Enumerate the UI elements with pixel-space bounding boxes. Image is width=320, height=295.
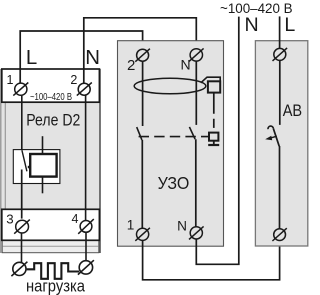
L supply wire to AB [279, 16, 281, 48]
svg-text:1: 1 [6, 73, 13, 87]
trip dashed link vertical [213, 105, 215, 133]
svg-text:УЗО: УЗО [158, 173, 190, 193]
wire relay terminal 2 to UZO terminal N (N) [84, 18, 197, 84]
svg-text:Реле D2: Реле D2 [26, 111, 80, 130]
relay contact wire from terminal 1 [21, 96, 23, 151]
svg-text:N: N [177, 218, 187, 233]
UZO left contact blade [137, 127, 142, 140]
svg-text:нагрузка: нагрузка [26, 277, 86, 295]
UZO terminal N top [189, 48, 204, 61]
wire relay terminal 1 to UZO terminal 2 (L) [20, 31, 142, 83]
load terminal right [78, 260, 94, 274]
coil stub top [42, 136, 44, 154]
terminal 3 [14, 220, 30, 234]
svg-text:L: L [26, 47, 37, 69]
load resistor meander [27, 263, 80, 279]
coil stub bottom [42, 177, 44, 194]
toroid to trip relay link [201, 77, 220, 83]
svg-text:~100–420 В: ~100–420 В [30, 92, 72, 103]
relay module D2 body [0, 69, 100, 253]
armature nub [28, 166, 30, 169]
AB wire lower [279, 146, 281, 229]
AB breaker blade [273, 129, 279, 147]
svg-text:3: 3 [6, 211, 13, 226]
terminal 2 [77, 83, 92, 96]
relay coil [30, 154, 56, 177]
svg-text:N: N [180, 56, 190, 72]
svg-text:N: N [85, 47, 100, 69]
UZO internal wire right upper [195, 61, 197, 125]
trip stem [213, 93, 215, 105]
load terminal left [11, 262, 27, 276]
UZO terminal 1 bottom [135, 228, 150, 241]
wire terminal 2 to 4 [85, 95, 87, 220]
terminal 4 [78, 219, 94, 234]
UZO toroid ellipse [134, 78, 206, 94]
mechanical link dashed [139, 136, 209, 138]
test button stem [213, 141, 215, 145]
UZO terminal N bottom [189, 226, 204, 239]
test button square [209, 133, 218, 141]
wire blade to terminal 3 [21, 170, 23, 219]
svg-text:2: 2 [70, 73, 77, 87]
svg-text:АВ: АВ [283, 102, 302, 120]
UZO box [118, 41, 224, 247]
AB terminal bottom [272, 228, 286, 241]
UZO right contact blade [189, 127, 195, 139]
wire terminal 3 to load [21, 233, 23, 263]
UZO internal wire left lower [141, 140, 143, 228]
test button bar [208, 144, 219, 146]
AB wire upper [279, 60, 281, 125]
AB terminal top [273, 48, 288, 61]
AB breaker hook [268, 126, 273, 129]
svg-text:1: 1 [127, 218, 135, 233]
relay bottom terminal strip [2, 209, 100, 240]
svg-text:4: 4 [72, 212, 79, 226]
relay top terminal strip [2, 69, 100, 102]
UZO internal wire left upper [142, 61, 144, 126]
trip relay square [208, 81, 220, 92]
relay switch blade [22, 150, 27, 171]
svg-text:N: N [245, 14, 259, 36]
relay symbol outer box [13, 150, 60, 184]
UZO internal wire right lower [195, 139, 197, 227]
AB trip arrow [265, 136, 277, 140]
AB box [255, 41, 307, 246]
svg-text:2: 2 [127, 57, 135, 74]
svg-text:L: L [284, 14, 295, 36]
N supply wire to UZO bottom N [196, 17, 239, 265]
UZO terminal 2 [135, 49, 150, 62]
wire terminal 4 to load [85, 232, 87, 261]
terminal 1 [13, 83, 28, 96]
wire UZO terminal 1 to AB bottom [143, 240, 280, 279]
